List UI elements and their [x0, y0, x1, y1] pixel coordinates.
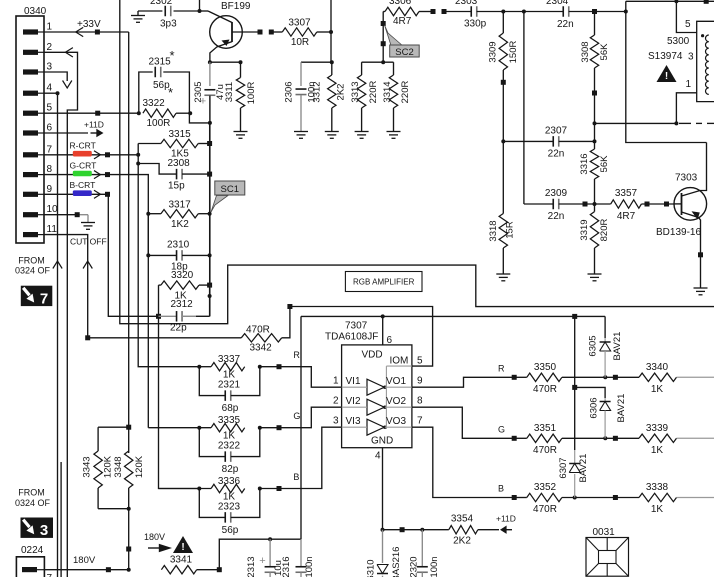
svg-text:3308: 3308 [580, 41, 591, 62]
svg-text:GND: GND [371, 436, 393, 447]
wire B row to edge [677, 497, 714, 499]
test point 3337 [277, 364, 282, 369]
svg-text:2313: 2313 [246, 556, 257, 577]
resistor 3341 [161, 566, 196, 574]
ground pin 10 [87, 215, 89, 223]
svg-text:VO3: VO3 [386, 416, 406, 427]
wire pin 9 B [44, 194, 159, 316]
svg-text:7307: 7307 [345, 321, 368, 332]
svg-text:2: 2 [47, 42, 53, 53]
junction 2305 column tee [208, 121, 212, 125]
wire G column [147, 214, 149, 256]
svg-text:1K: 1K [651, 384, 664, 395]
svg-text:+: + [259, 555, 265, 567]
connector 0340 pin 2 [23, 50, 38, 55]
svg-text:6305: 6305 [587, 335, 598, 356]
connector 0340 pin 4 [23, 91, 38, 96]
resistor 3316 56K [590, 149, 598, 179]
resistor 3335 1K [211, 424, 245, 432]
svg-text:2320: 2320 [408, 556, 419, 577]
svg-text:4: 4 [47, 83, 53, 94]
svg-text:0224: 0224 [21, 545, 44, 556]
test point G wire [105, 172, 110, 177]
test point emitter [698, 252, 703, 257]
svg-text:3340: 3340 [646, 362, 669, 373]
wire 3313/3314 tee [362, 61, 394, 63]
svg-text:820R: 820R [599, 219, 610, 242]
svg-text:3339: 3339 [646, 423, 669, 434]
resistor 3357 4R7 [595, 203, 611, 205]
svg-text:2315: 2315 [149, 57, 172, 68]
transformer polarity dot [701, 34, 704, 37]
wire 3320 left bracket / B column [159, 285, 200, 488]
connector 0340 pin 11 [23, 232, 38, 237]
connector 0340 pin 7 [23, 152, 38, 157]
wire pin 8 G [44, 175, 148, 428]
resistor 3338 1K [639, 493, 677, 501]
wire IOM line [290, 307, 433, 367]
arrow on pin 2 wire [65, 48, 73, 57]
svg-text:3312: 3312 [311, 81, 322, 102]
wire 3322 bracket [139, 72, 153, 113]
wire R row to edge [677, 376, 714, 378]
svg-text:7: 7 [40, 290, 48, 307]
wire R row mid [562, 376, 639, 378]
wire VO2 to G row [412, 407, 514, 438]
resistor 3351 470R [527, 434, 562, 442]
svg-text:BD139-16: BD139-16 [656, 227, 701, 238]
resistor 3335 1K / capacitor 2322 82p (G input) [148, 427, 211, 429]
svg-text:3350: 3350 [534, 362, 557, 373]
svg-text:4R7: 4R7 [617, 211, 636, 222]
svg-text:2304: 2304 [546, 0, 569, 7]
resistor 3319 820R [594, 204, 596, 212]
svg-text:7: 7 [47, 144, 53, 155]
green bar G-CRT [73, 171, 92, 177]
resistor 3350 470R [527, 373, 562, 381]
wire 2306 tee [301, 61, 332, 63]
svg-text:3313: 3313 [350, 81, 361, 102]
svg-text:3: 3 [40, 522, 48, 539]
connector 0224 pin 7 [22, 567, 37, 572]
svg-text:0324 OF: 0324 OF [15, 266, 51, 276]
wire pin 10 [44, 214, 77, 216]
svg-text:3: 3 [333, 416, 339, 427]
wire B row mid [562, 497, 639, 499]
svg-text:R-CRT: R-CRT [70, 141, 96, 151]
svg-text:3320: 3320 [171, 270, 194, 281]
svg-text:VI3: VI3 [346, 416, 361, 427]
diode 6307 BAV21 [574, 450, 576, 464]
wire to dash line [595, 122, 677, 124]
svg-text:3: 3 [688, 51, 694, 62]
wire VDD feed column [300, 316, 302, 539]
svg-text:3314: 3314 [382, 81, 393, 102]
svg-text:470R: 470R [533, 384, 557, 395]
connector 0340 body [16, 16, 44, 243]
wire column x331 [330, 0, 332, 62]
svg-text:6: 6 [387, 335, 393, 346]
svg-text:B: B [293, 472, 299, 482]
svg-text:3311: 3311 [224, 82, 235, 102]
svg-text:TDA6108JF: TDA6108JF [325, 331, 378, 342]
svg-text:2K2: 2K2 [453, 536, 471, 547]
wire R row to VI1 [260, 367, 342, 388]
svg-text:G-CRT: G-CRT [70, 161, 97, 171]
svg-text:10R: 10R [291, 37, 309, 48]
resistor 3311 100R [240, 62, 242, 77]
dash line to page edge [679, 122, 691, 124]
wire G row mid [562, 437, 639, 439]
svg-text:9: 9 [417, 376, 423, 387]
junction 3307/column [329, 30, 333, 34]
svg-text:11: 11 [47, 224, 58, 235]
svg-text:B-CRT: B-CRT [70, 180, 96, 190]
wire R row [514, 376, 527, 378]
capacitor 2303 330p [444, 11, 471, 13]
connector 0340 pin 6 [23, 130, 38, 135]
svg-text:SC2: SC2 [395, 47, 413, 58]
svg-text:3316: 3316 [579, 153, 590, 174]
svg-text:*: * [168, 85, 173, 100]
svg-text:SC1: SC1 [221, 184, 239, 195]
resistor 3336 1K [211, 484, 245, 492]
svg-text:CUT OFF: CUT OFF [70, 237, 107, 247]
junction emitter node [208, 60, 212, 64]
capacitor 2305 47u electrolytic [209, 62, 211, 86]
resistor 3352 470R [527, 493, 562, 501]
resistor 3308 56K [594, 12, 596, 36]
svg-text:2: 2 [333, 396, 339, 407]
test point G row [512, 436, 517, 441]
svg-text:VDD: VDD [362, 350, 383, 361]
svg-text:3309: 3309 [487, 41, 498, 62]
svg-text:3317: 3317 [169, 200, 192, 211]
svg-text:3306: 3306 [389, 0, 412, 7]
wire pin 6 [44, 132, 88, 134]
test point on +33V wire [95, 30, 100, 35]
svg-text:3318: 3318 [488, 220, 499, 241]
wire VDD line [301, 315, 605, 317]
svg-text:3337: 3337 [218, 354, 241, 365]
arrow G-CRT [94, 171, 101, 179]
blue bar B-CRT [73, 190, 92, 196]
svg-text:BAV21: BAV21 [578, 454, 589, 483]
svg-text:2302: 2302 [150, 0, 173, 7]
resistor 3309 150R [502, 12, 504, 34]
test point rail [126, 547, 131, 552]
svg-text:6307: 6307 [558, 457, 569, 478]
svg-text:FROM: FROM [18, 488, 45, 498]
wire top edge right [626, 0, 714, 2]
svg-text:BAV21: BAV21 [612, 332, 623, 361]
junction 2307 left [501, 139, 505, 143]
svg-text:3: 3 [47, 62, 53, 73]
wire B row to VI3 [260, 427, 342, 488]
svg-text:BAS216: BAS216 [391, 547, 402, 577]
resistor 3348 120K [125, 451, 133, 488]
test points collector [258, 30, 263, 35]
capacitor 2320 100n [421, 530, 423, 566]
ground 3319 [588, 273, 602, 275]
junction R wire [136, 153, 140, 157]
svg-text:R: R [498, 363, 505, 373]
junction 120K bottom [127, 507, 131, 511]
svg-text:1: 1 [333, 376, 339, 387]
junction 2308 left [136, 162, 140, 166]
svg-text:5: 5 [47, 103, 53, 114]
ground 3314 [387, 131, 401, 133]
svg-text:10: 10 [47, 204, 59, 215]
svg-text:6306: 6306 [588, 397, 599, 418]
diode 6310 BAS216 [382, 530, 384, 563]
wire transformer pin5 [676, 1, 696, 32]
svg-text:BF199: BF199 [221, 1, 251, 12]
page flag 7 [21, 286, 53, 306]
svg-text:100R: 100R [246, 82, 257, 105]
test point B column [156, 314, 161, 319]
connector 0340 pin 10 [23, 212, 38, 217]
connector 0340 pin 1 [23, 29, 38, 34]
svg-text:2322: 2322 [218, 441, 241, 452]
svg-text:2310: 2310 [167, 240, 190, 251]
wire B row [514, 497, 527, 499]
arrow B-CRT [94, 190, 101, 198]
node junctions 3335 [197, 426, 201, 430]
wire G row [514, 437, 527, 439]
svg-text:1K: 1K [651, 445, 664, 456]
test point 3308 bottom [592, 91, 597, 96]
wire emitter node [210, 61, 241, 63]
svg-text:3338: 3338 [646, 482, 669, 493]
svg-text:G: G [498, 424, 505, 434]
svg-text:8: 8 [47, 164, 53, 175]
svg-text:3335: 3335 [218, 415, 241, 426]
svg-text:3322: 3322 [143, 98, 166, 109]
wire G row to edge [677, 437, 714, 439]
wire pin 2 [44, 52, 78, 577]
svg-text:RGB AMPLIFIER: RGB AMPLIFIER [353, 278, 415, 287]
svg-text:3315: 3315 [169, 129, 192, 140]
wire transformer pin1 [676, 93, 696, 124]
svg-text:3352: 3352 [534, 482, 557, 493]
svg-text:3341: 3341 [170, 555, 193, 566]
wire 3342 to IOM riser [282, 307, 290, 338]
capacitor 2316 100n [300, 539, 302, 566]
wire collector to 3307 [271, 31, 282, 33]
svg-text:VO1: VO1 [386, 376, 406, 387]
svg-text:G: G [293, 411, 300, 421]
SC2 callout [385, 25, 404, 46]
wire base junction up [199, 0, 201, 11]
ground 3311 [234, 131, 248, 133]
svg-text:1: 1 [686, 79, 692, 90]
svg-text:68p: 68p [222, 403, 239, 414]
svg-text:470R: 470R [533, 504, 557, 515]
wire GND node row [383, 529, 449, 531]
svg-text:2308: 2308 [168, 158, 191, 169]
svg-text:R: R [293, 350, 300, 360]
test point 180V wire [106, 567, 111, 572]
svg-text:100R: 100R [147, 118, 171, 129]
svg-text:2303: 2303 [455, 0, 478, 7]
test points top wire [431, 9, 436, 14]
IC pin 6 VDD [382, 316, 384, 345]
wire 180V from 0224 [44, 569, 128, 571]
svg-text:0031: 0031 [593, 527, 616, 538]
svg-text:2323: 2323 [218, 502, 241, 513]
svg-text:B: B [498, 484, 504, 494]
wire pin 3 [44, 72, 67, 81]
ground 2302 [137, 11, 139, 16]
svg-text:+11D: +11D [496, 514, 516, 524]
resistor 3307 10R [282, 28, 317, 36]
transformer coil [706, 35, 709, 94]
svg-text:7: 7 [47, 573, 53, 577]
svg-text:*: * [170, 48, 175, 63]
wire G row to VI2 [260, 407, 342, 428]
resistor 3318 15R [499, 214, 507, 249]
wire VO3 to B row [412, 427, 514, 497]
svg-text:56K: 56K [599, 155, 610, 173]
IC body [342, 345, 412, 448]
diode 6305 BAV21 [604, 316, 606, 338]
junction VDD pin [381, 314, 385, 318]
wire 120K pair top [98, 426, 129, 428]
svg-text:3343: 3343 [82, 456, 93, 477]
capacitor 2309 22n [524, 203, 553, 205]
junction 2307 right [593, 139, 597, 143]
resistor 3336 1K / capacitor 2323 56p (B input) [159, 488, 212, 490]
junction pin 4 [56, 91, 60, 95]
svg-text:2306: 2306 [283, 81, 294, 102]
wire VDD feed riser [219, 539, 301, 570]
test points base wire [645, 202, 650, 207]
IC inner amplifiers [367, 379, 384, 395]
wire 3341 to corner [197, 569, 220, 571]
test point B row [512, 495, 517, 500]
page flag 3 [21, 518, 54, 538]
wire pin 5 [44, 112, 139, 114]
svg-text:4R7: 4R7 [393, 16, 412, 27]
svg-text:3342: 3342 [250, 343, 273, 354]
resistor 3337 1K / capacitor 2321 68p (R input) [199, 366, 211, 368]
test point 3308 top [592, 9, 597, 14]
svg-text:5300: 5300 [667, 36, 690, 47]
wire 120K pair bottom [98, 508, 129, 510]
wire pin 4 bus down [57, 93, 59, 577]
test point cutoff corner [85, 335, 90, 340]
svg-text:180V: 180V [73, 555, 96, 566]
svg-text:VO2: VO2 [386, 396, 406, 407]
wire cutoff to 3342 [88, 337, 242, 339]
test point 2309/3357 [583, 202, 588, 207]
connector 0340 pin 9 [23, 192, 38, 197]
svg-text:9: 9 [47, 184, 53, 195]
arrow +11D [96, 129, 103, 137]
connector 0340 pin 8 [23, 172, 38, 177]
svg-text:IOM: IOM [390, 356, 409, 367]
svg-text:VI2: VI2 [346, 396, 361, 407]
svg-text:3p3: 3p3 [160, 19, 177, 30]
svg-text:180V: 180V [144, 532, 165, 542]
wire pin 4 [44, 92, 58, 94]
svg-text:100n: 100n [429, 556, 440, 577]
svg-text:15R: 15R [504, 221, 515, 239]
svg-text:S13974: S13974 [648, 51, 683, 62]
test point B wire [105, 192, 110, 197]
svg-text:1K2: 1K2 [171, 219, 189, 230]
svg-text:1: 1 [47, 22, 53, 33]
svg-text:2309: 2309 [545, 188, 568, 199]
svg-text:2307: 2307 [545, 126, 568, 137]
svg-text:!: ! [181, 542, 184, 553]
connector 0340 pin 3 [23, 69, 38, 74]
arrow on +33V wire [76, 27, 84, 36]
test point VDD line [572, 314, 577, 319]
svg-text:3348: 3348 [113, 456, 124, 477]
warning triangle 5300 [657, 65, 677, 82]
wire column x625.8 [626, 1, 707, 142]
svg-text:5: 5 [685, 19, 691, 30]
svg-text:82p: 82p [222, 464, 239, 475]
wire pin 7 R [44, 154, 138, 156]
svg-text:2321: 2321 [218, 380, 241, 391]
svg-text:22n: 22n [557, 19, 574, 30]
svg-text:2K2: 2K2 [336, 84, 347, 101]
wire +33V from pin 1 [44, 31, 129, 33]
test point 120K top [126, 425, 131, 430]
svg-text:VI1: VI1 [346, 376, 361, 387]
svg-text:6: 6 [47, 123, 53, 134]
svg-text:3357: 3357 [615, 188, 638, 199]
capacitor 2304 22n [524, 11, 563, 13]
arrow up on cutoff wire [83, 261, 92, 269]
junction BF199 base [198, 9, 202, 13]
ground BD139 emitter [694, 287, 708, 289]
red bar R-CRT [73, 151, 92, 157]
wire clamp bus [574, 316, 576, 450]
connector 0224 body [16, 557, 44, 577]
arrow R-CRT [94, 151, 101, 159]
node junctions 3336 [197, 487, 201, 491]
arrow pin 3 down [63, 81, 72, 89]
svg-text:4: 4 [375, 451, 381, 462]
junction 3322 left [137, 111, 141, 115]
svg-text:56K: 56K [599, 43, 610, 61]
wire pin 11 cut off [44, 235, 88, 338]
resistor 3314 220R [393, 62, 395, 75]
junction dash line [593, 121, 597, 125]
resistor 3312 2K2 [331, 62, 333, 75]
test point pin 5 wire [95, 111, 100, 116]
svg-text:100n: 100n [304, 556, 315, 577]
test point 3335 [277, 425, 282, 430]
svg-text:220R: 220R [400, 81, 411, 104]
svg-text:330p: 330p [464, 19, 487, 30]
junction 2309 column [522, 10, 526, 14]
svg-text:1K: 1K [651, 504, 664, 515]
resistor 3339 1K [639, 434, 677, 442]
diode 6306 BAV21 [575, 387, 605, 398]
ground 3318 [496, 273, 510, 275]
junction top right column [624, 10, 628, 14]
SC1 column [209, 96, 211, 317]
ground 3313 [355, 131, 369, 133]
junction 3309 column [501, 10, 505, 14]
test point pin 10 [75, 212, 80, 217]
svg-text:120K: 120K [103, 455, 114, 478]
